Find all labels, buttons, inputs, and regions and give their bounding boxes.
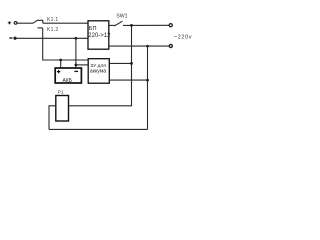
node battery minus branch — [75, 64, 78, 67]
wire bottom rail — [49, 128, 148, 130]
power supply BP box — [88, 21, 109, 49]
svg-text:K1.1: K1.1 — [47, 17, 59, 23]
battery minus mark — [74, 70, 78, 72]
wire battery minus lead — [75, 38, 77, 68]
node minus wire junction — [75, 37, 78, 40]
wire PSU lower to 220 terminal — [109, 45, 170, 47]
wire charger bottom right — [109, 79, 147, 81]
relay coil P1 box — [56, 96, 69, 122]
charger ZU box — [88, 59, 109, 83]
wire battery plus lead — [60, 60, 62, 68]
wire relay left lead — [49, 106, 56, 130]
switch SW1 blade — [114, 21, 122, 26]
wire SW1 net vertical — [69, 25, 132, 105]
terminal ring 220 bottom — [169, 44, 172, 47]
wire charger right — [109, 62, 131, 64]
terminal ring + — [14, 22, 17, 25]
svg-text:Р1: Р1 — [58, 90, 64, 96]
node charger right junction — [130, 62, 133, 65]
svg-text:аккума: аккума — [90, 69, 107, 75]
terminal plus sign — [8, 21, 11, 24]
svg-text:~220v: ~220v — [174, 34, 192, 40]
wire SW1 contact to 220 terminal — [123, 24, 170, 26]
node 220 lower junction — [146, 45, 149, 48]
terminal ring 220 top — [169, 24, 172, 27]
svg-text:K1.2: K1.2 — [47, 27, 59, 33]
wire K1.2 to battery plus net — [43, 28, 88, 60]
node battery plus junction — [59, 59, 62, 62]
node SW1 net junction — [130, 24, 133, 27]
wire right vertical — [147, 46, 149, 129]
terminal minus sign — [9, 37, 12, 39]
svg-text:АКБ: АКБ — [63, 78, 73, 84]
terminal dot - — [13, 37, 16, 40]
wire -12 input — [15, 37, 88, 39]
svg-text:SW1: SW1 — [116, 14, 127, 20]
node charger bottom junction — [146, 79, 149, 82]
wire K1.1 to PSU — [43, 22, 88, 24]
svg-text:БП: БП — [89, 26, 97, 32]
wire minus branch to charger — [76, 64, 88, 66]
relay contact K1.2 stub — [38, 27, 43, 29]
battery plus mark — [57, 70, 60, 73]
wire PSU to SW1 — [109, 24, 115, 26]
battery AKB box — [55, 68, 81, 83]
svg-text:220->12: 220->12 — [88, 33, 111, 39]
relay contact K1.1 — [33, 20, 43, 23]
wire +12 input — [17, 22, 33, 24]
